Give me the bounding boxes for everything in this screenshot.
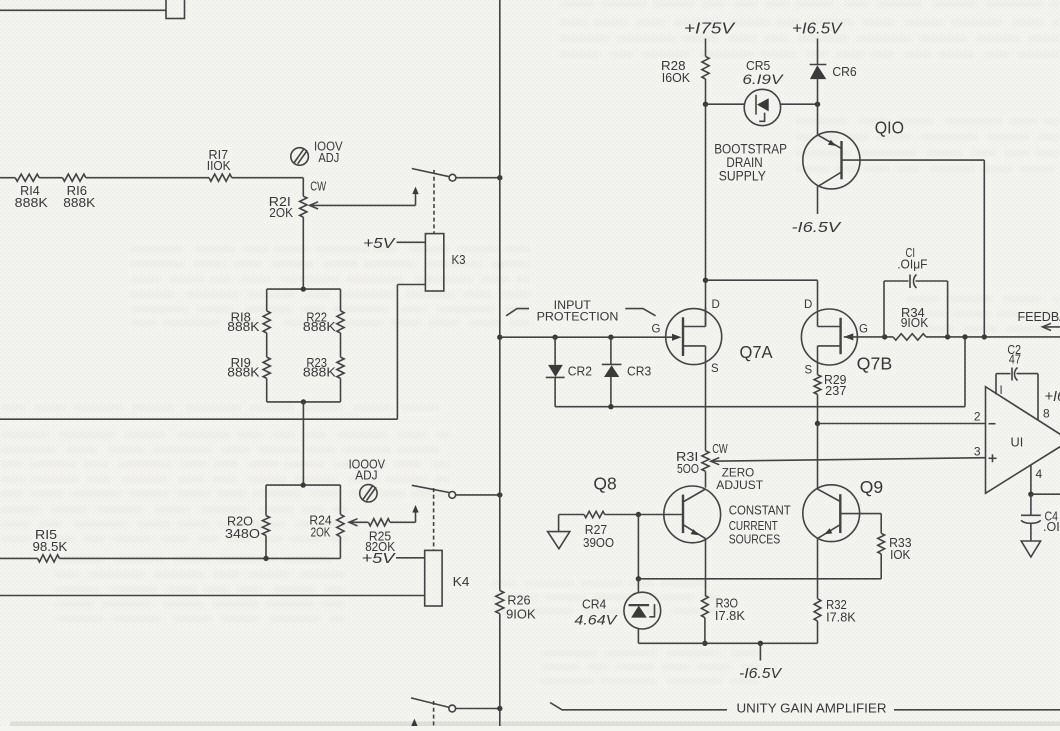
svg-text:K3: K3 <box>452 253 466 267</box>
svg-text:QIO: QIO <box>875 118 904 138</box>
svg-text:I: I <box>1000 385 1003 397</box>
svg-text:S: S <box>805 364 813 376</box>
svg-text:SOURCES: SOURCES <box>729 533 781 547</box>
svg-text:D: D <box>712 299 720 311</box>
svg-text:I6OK: I6OK <box>662 71 691 85</box>
svg-text:FEEDBACK: FEEDBACK <box>1018 310 1060 324</box>
svg-text:47: 47 <box>1009 353 1021 367</box>
svg-text:888K: 888K <box>303 365 337 379</box>
svg-text:3: 3 <box>974 445 981 459</box>
svg-text:G: G <box>859 323 868 335</box>
svg-text:ADJ: ADJ <box>355 469 377 483</box>
svg-text:.OIμ: .OIμ <box>1043 520 1060 534</box>
svg-text:.OIμF: .OIμF <box>897 258 928 272</box>
svg-text:CW: CW <box>712 442 728 456</box>
svg-text:Q7B: Q7B <box>857 353 893 373</box>
svg-text:-I6.5V: -I6.5V <box>739 665 783 682</box>
svg-text:+I75V: +I75V <box>684 21 736 38</box>
svg-text:UI: UI <box>1011 434 1024 449</box>
svg-text:CR4: CR4 <box>582 598 606 612</box>
svg-text:CURRENT: CURRENT <box>729 519 778 533</box>
svg-text:9IOK: 9IOK <box>901 316 929 330</box>
svg-text:D: D <box>804 299 812 311</box>
svg-text:INPUT: INPUT <box>554 300 591 312</box>
svg-text:I7.8K: I7.8K <box>826 611 856 625</box>
svg-text:Q8: Q8 <box>593 474 616 494</box>
svg-text:IOK: IOK <box>890 548 911 562</box>
svg-text:888K: 888K <box>303 320 337 334</box>
svg-text:2: 2 <box>974 409 981 423</box>
svg-text:888K: 888K <box>63 196 96 210</box>
svg-text:I7.8K: I7.8K <box>715 609 746 623</box>
svg-text:888K: 888K <box>227 365 260 379</box>
svg-text:CW: CW <box>310 180 326 194</box>
svg-text:-I6.5V: -I6.5V <box>792 219 843 236</box>
svg-text:SUPPLY: SUPPLY <box>719 169 766 184</box>
svg-text:39OO: 39OO <box>583 536 614 550</box>
svg-text:CONSTANT: CONSTANT <box>729 503 791 517</box>
svg-text:G: G <box>652 323 661 335</box>
svg-text:CR3: CR3 <box>627 365 651 379</box>
svg-text:348O: 348O <box>225 527 260 541</box>
svg-text:K4: K4 <box>453 575 470 589</box>
svg-text:+I6: +I6 <box>1045 389 1060 405</box>
svg-text:+5V: +5V <box>362 551 397 567</box>
svg-text:4.64V: 4.64V <box>574 612 618 628</box>
svg-text:2OK: 2OK <box>311 526 331 540</box>
svg-text:9IOK: 9IOK <box>506 608 536 622</box>
svg-text:+5V: +5V <box>363 236 396 252</box>
svg-text:+I6.5V: +I6.5V <box>792 21 843 38</box>
svg-text:CR2: CR2 <box>568 365 592 379</box>
svg-text:IIOK: IIOK <box>207 159 231 173</box>
svg-text:UNITY GAIN AMPLIFIER: UNITY GAIN AMPLIFIER <box>737 702 887 716</box>
svg-text:PROTECTION: PROTECTION <box>537 312 619 324</box>
svg-text:888K: 888K <box>15 196 49 210</box>
svg-text:R27: R27 <box>585 523 607 537</box>
svg-text:2OK: 2OK <box>269 206 293 220</box>
svg-text:8: 8 <box>1043 407 1050 421</box>
svg-text:CR6: CR6 <box>832 65 856 79</box>
svg-text:R26: R26 <box>507 593 530 607</box>
svg-text:ADJ: ADJ <box>318 151 339 165</box>
svg-text:237: 237 <box>825 384 846 398</box>
svg-text:5OO: 5OO <box>677 462 699 476</box>
svg-text:888K: 888K <box>227 320 260 334</box>
svg-text:Q7A: Q7A <box>740 342 773 362</box>
svg-text:6.I9V: 6.I9V <box>742 71 784 87</box>
svg-text:4: 4 <box>1036 467 1043 481</box>
svg-text:ADJUST: ADJUST <box>716 478 763 492</box>
svg-text:S: S <box>711 363 719 375</box>
svg-text:Q9: Q9 <box>860 477 883 497</box>
svg-text:98.5K: 98.5K <box>33 540 68 554</box>
